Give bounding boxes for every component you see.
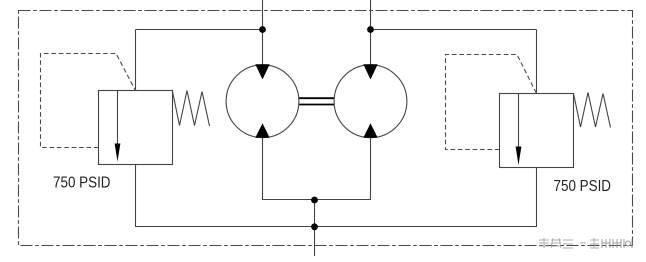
svg-text:750 PSID: 750 PSID <box>554 178 612 195</box>
svg-text:750 PSID: 750 PSID <box>53 175 111 192</box>
